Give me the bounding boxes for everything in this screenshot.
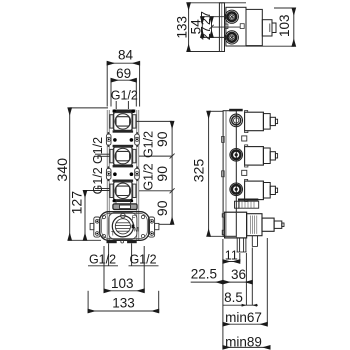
dimension 54 (top view) <box>202 17 227 38</box>
svg-text:103: 103 <box>111 276 134 291</box>
plate top cap <box>229 109 243 112</box>
corner screws <box>102 215 105 218</box>
left side tab <box>90 223 94 229</box>
svg-text:G1/2: G1/2 <box>129 252 156 266</box>
dimension 103 (top view right) <box>246 8 294 46</box>
svg-text:36: 36 <box>231 267 246 282</box>
svg-text:27: 27 <box>199 26 213 40</box>
svg-text:G1/2: G1/2 <box>91 167 105 194</box>
link assembly between units mid=174.0 <box>106 166 139 181</box>
svg-text:325: 325 <box>191 159 207 183</box>
side view unit 3 <box>230 179 278 201</box>
top view nozzle <box>262 20 272 36</box>
dimension 27/27 (top view) <box>209 17 240 38</box>
T M F labels + dark block <box>132 225 135 229</box>
bottom ports <box>107 240 117 243</box>
coupling collar below unit3 <box>113 200 137 209</box>
dimension 103 (bottom) <box>104 246 144 293</box>
svg-text:G1/2: G1/2 <box>142 163 156 190</box>
dimension 340 (left) <box>68 108 108 240</box>
top view mounting plate (edge-on) <box>219 3 224 52</box>
svg-text:90: 90 <box>154 200 170 216</box>
svg-text:133: 133 <box>112 295 135 310</box>
svg-text:103: 103 <box>277 14 292 37</box>
side view coupling below unit3 <box>235 199 259 209</box>
right side tab <box>155 223 159 229</box>
svg-text:22.5: 22.5 <box>191 266 217 281</box>
body outline <box>100 212 150 241</box>
svg-text:27: 27 <box>199 11 213 25</box>
side view unit 2 <box>230 145 278 167</box>
left port leader lines <box>95 154 110 188</box>
svg-text:90: 90 <box>154 166 170 182</box>
mixer body (front view) <box>90 212 159 244</box>
svg-text:340: 340 <box>55 158 71 182</box>
svg-text:G1/2: G1/2 <box>89 252 116 266</box>
top view nozzle tip <box>272 23 276 33</box>
side view plate tab (gap2) <box>242 170 247 175</box>
top view port circle 1 <box>225 10 238 23</box>
right port leader lines + 90 dimension chain <box>136 121 174 224</box>
side view mounting plate <box>223 109 243 237</box>
top view plate tab <box>225 24 228 29</box>
svg-text:G1/2: G1/2 <box>142 131 156 158</box>
dimension 133 (top view, far left) <box>189 3 246 52</box>
central valve circle <box>112 216 133 237</box>
link assembly between units mid=139.7 <box>106 132 139 147</box>
svg-text:11: 11 <box>225 249 238 263</box>
left ear <box>94 217 100 237</box>
svg-text:8.5: 8.5 <box>224 290 243 305</box>
svg-text:84: 84 <box>118 48 134 63</box>
svg-text:F: F <box>132 216 136 222</box>
right ear <box>148 217 154 237</box>
left mounting rail lines <box>107 110 139 240</box>
central valve square frame <box>109 213 137 239</box>
top view body block <box>226 7 246 46</box>
valve unit (front) cy=156.1 <box>110 145 136 168</box>
side view unit 1 <box>230 111 278 133</box>
dimension 325 (side view left) <box>209 111 225 236</box>
svg-text:133: 133 <box>174 16 189 39</box>
side view mixer block <box>222 212 284 238</box>
valve unit (front) cy=190.8 <box>110 180 136 203</box>
svg-text:T: T <box>111 231 115 237</box>
valve unit (front) cy=121.4 <box>110 109 136 132</box>
top view middle small square <box>240 24 244 29</box>
dimension 69 <box>111 79 136 107</box>
top view cartridge block <box>246 9 262 45</box>
svg-text:M: M <box>134 227 139 233</box>
svg-text:min67: min67 <box>225 310 262 325</box>
bottom G1/2 labels with leaders <box>88 243 159 265</box>
bottom-right extension lines <box>223 238 267 348</box>
dimension 127 (left) <box>85 191 110 241</box>
side view plate tab (gap1) <box>242 136 247 141</box>
side view down tubes <box>237 236 258 252</box>
svg-text:G1/2: G1/2 <box>111 89 138 103</box>
dimension 133 (bottom) <box>88 291 159 313</box>
svg-text:69: 69 <box>116 66 131 81</box>
dimension 84 (top) <box>107 62 139 107</box>
svg-text:90: 90 <box>154 131 170 147</box>
top view port circle 2 <box>225 31 238 44</box>
svg-text:127: 127 <box>70 191 86 215</box>
svg-text:G1/2: G1/2 <box>91 137 105 164</box>
